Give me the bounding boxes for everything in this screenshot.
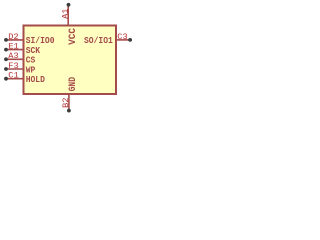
pin CS (pad A3) wire <box>5 58 24 60</box>
svg-text:CS: CS <box>26 56 36 66</box>
svg-text:A3: A3 <box>8 51 18 61</box>
svg-text:C1: C1 <box>8 71 18 81</box>
junction dot pad B2 <box>67 109 71 113</box>
svg-text:GND: GND <box>68 77 79 91</box>
svg-text:C3: C3 <box>117 32 127 42</box>
svg-text:D2: D2 <box>8 32 18 42</box>
pin HOLD (pad C1) wire <box>5 78 24 80</box>
svg-text:SO/IO1: SO/IO1 <box>84 36 113 46</box>
svg-text:HOLD: HOLD <box>26 75 46 85</box>
pin VCC (pad A1) wire <box>67 5 69 25</box>
pin SI/IO0 (pad D2) wire <box>5 39 24 41</box>
junction dot pad C3 <box>128 38 132 42</box>
svg-text:A1: A1 <box>60 9 70 19</box>
IC body U1 <box>24 26 117 95</box>
svg-text:B2: B2 <box>61 98 71 108</box>
svg-text:SCK: SCK <box>26 46 41 56</box>
pin SO/IO1 (pad C3) wire <box>116 39 130 41</box>
junction dot pad A3 <box>4 57 8 61</box>
svg-text:F3: F3 <box>8 61 18 71</box>
junction dot pad D2 <box>4 38 8 42</box>
junction dot pad C1 <box>4 77 8 81</box>
junction dot pad A1 <box>67 3 71 7</box>
svg-text:VCC: VCC <box>68 28 79 45</box>
svg-text:E1: E1 <box>8 42 18 52</box>
pin GND (pad B2) wire <box>68 94 70 110</box>
svg-text:WP: WP <box>26 65 36 75</box>
svg-text:SI/IO0: SI/IO0 <box>26 36 55 46</box>
pin SCK (pad E1) wire <box>5 49 24 51</box>
junction dot pad E1 <box>4 48 8 52</box>
pin WP (pad F3) wire <box>5 68 24 70</box>
junction dot pad F3 <box>4 67 8 71</box>
